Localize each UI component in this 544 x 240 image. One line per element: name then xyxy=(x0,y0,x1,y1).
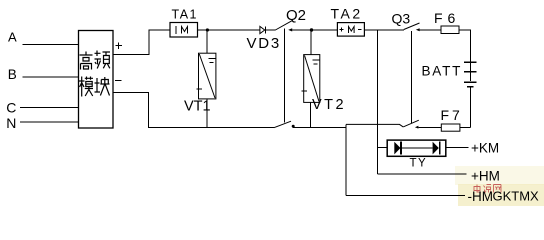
svg-text:F6: F6 xyxy=(434,10,460,26)
svg-text:Q3: Q3 xyxy=(392,10,411,26)
svg-text:B: B xyxy=(8,67,17,82)
svg-text:TA1: TA1 xyxy=(172,8,199,22)
svg-text:VT2: VT2 xyxy=(312,97,346,113)
svg-text:+HM: +HM xyxy=(471,169,500,184)
svg-text:N: N xyxy=(6,115,16,131)
svg-text:BATT: BATT xyxy=(422,63,463,78)
svg-text:-HM: -HM xyxy=(468,189,494,204)
svg-text:VD3: VD3 xyxy=(247,35,282,52)
svg-text:+KM: +KM xyxy=(471,141,499,156)
svg-text:GKTMX: GKTMX xyxy=(493,189,540,204)
svg-text:C: C xyxy=(6,100,16,116)
svg-text:F7: F7 xyxy=(441,107,463,123)
svg-text:Q2: Q2 xyxy=(286,7,306,24)
svg-text:TA2: TA2 xyxy=(331,6,363,22)
svg-text:TY: TY xyxy=(410,157,428,169)
svg-text:VT1: VT1 xyxy=(184,99,211,115)
svg-text:A: A xyxy=(8,29,17,44)
